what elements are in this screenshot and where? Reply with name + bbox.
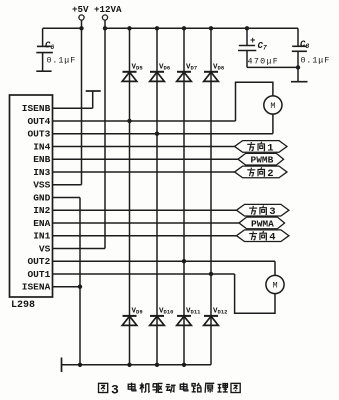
wire pin OUT3	[53, 133, 273, 135]
wire pin GND	[53, 196, 81, 198]
ground rail bottom	[62, 364, 212, 366]
svg-text:VSS: VSS	[33, 180, 50, 191]
svg-text:ENB: ENB	[33, 154, 50, 165]
svg-text:1: 1	[267, 142, 273, 154]
junction rail VD7	[182, 26, 186, 30]
junction rail C7	[245, 26, 249, 30]
svg-text:OUT1: OUT1	[27, 269, 50, 280]
wire pin OUT2	[53, 260, 276, 262]
wire pin ENB to flag	[53, 158, 239, 160]
junction rail VD5	[127, 26, 131, 30]
capacitor C8	[292, 28, 307, 81]
wire pin ISENA	[53, 286, 81, 288]
svg-text:VD8: VD8	[213, 64, 225, 72]
junction OUT4 / VD5	[127, 119, 131, 123]
net flag 方向2	[235, 166, 287, 178]
wire motor A top stub	[274, 261, 276, 275]
wire C7 to C8 bottom link	[247, 66, 298, 68]
wire pin VSS	[53, 184, 82, 186]
svg-text:3: 3	[111, 383, 119, 398]
svg-text:VD11: VD11	[186, 308, 201, 316]
junction ISENA / GND column	[78, 285, 82, 289]
svg-text:C6: C6	[45, 41, 54, 52]
svg-text:VD7: VD7	[186, 64, 197, 72]
wire ISENB riser to tap	[92, 91, 94, 108]
wire GND column down to bottom rail	[79, 197, 81, 364]
net flag 方向3	[237, 204, 289, 216]
wire motor A bottom link	[235, 274, 275, 313]
svg-text:IN3: IN3	[33, 167, 50, 178]
diode VD9	[122, 316, 137, 326]
junction OUT3 / VD6	[155, 132, 159, 136]
svg-text:+: +	[250, 36, 255, 46]
diode VD5	[122, 72, 137, 82]
wire diode column VD5/VD9	[129, 28, 131, 365]
svg-text:OUT2: OUT2	[27, 256, 50, 267]
net flag PWMB	[238, 153, 284, 165]
junction C8 bottom	[296, 65, 300, 69]
svg-text:VD12: VD12	[213, 308, 227, 316]
wire pin OUT1	[53, 273, 235, 275]
svg-text:OUT4: OUT4	[27, 116, 50, 127]
svg-text:ENA: ENA	[33, 218, 50, 229]
junction OUT2 / VD7	[182, 259, 186, 263]
wire motor B top link	[236, 82, 273, 121]
svg-text:VD5: VD5	[132, 64, 144, 72]
power terminal +5V	[79, 15, 84, 20]
junction ground rail VD9	[127, 363, 131, 367]
junction ground rail VD11	[182, 363, 186, 367]
wire +12VA top rail	[105, 27, 298, 29]
wire diode column VD7/VD11	[183, 28, 185, 365]
net flag 方向1	[235, 141, 287, 153]
svg-text:4: 4	[269, 232, 275, 244]
flag text 方向2	[247, 167, 273, 180]
junction +5V rail	[79, 26, 83, 30]
diode VD10	[150, 316, 165, 326]
junction rail VD8	[209, 26, 213, 30]
diode VD12	[204, 316, 219, 326]
svg-text:+12VA: +12VA	[94, 4, 122, 15]
svg-text:L298: L298	[11, 300, 35, 311]
svg-text:IN2: IN2	[33, 205, 50, 216]
svg-text:0.1μF: 0.1μF	[301, 56, 331, 66]
wire pin VS	[53, 247, 106, 249]
wire pin IN4 to flag	[53, 145, 235, 147]
svg-text:470μF: 470μF	[248, 57, 280, 67]
junction ground rail GND column	[78, 363, 82, 367]
power terminal +12VA	[102, 15, 107, 20]
wire pin IN1 to flag	[53, 235, 237, 237]
svg-text:PWMA: PWMA	[251, 218, 274, 229]
wire diode column VD6/VD10	[156, 28, 158, 365]
IC U1 L298 body	[10, 95, 53, 297]
svg-text:C7: C7	[258, 41, 267, 52]
wire +12VA column down to VS	[104, 20, 106, 248]
tap bar above ISENB	[86, 90, 101, 92]
diode VD8	[204, 72, 219, 82]
wire motor B bottom stub	[272, 114, 274, 134]
svg-text:VS: VS	[39, 243, 51, 254]
flag text 方向4	[249, 231, 275, 244]
junction ground rail VD10	[155, 363, 159, 367]
svg-text:PWMB: PWMB	[251, 155, 274, 166]
wire +5V rail left to C6	[43, 27, 82, 29]
flag text 方向3	[249, 206, 275, 219]
diode VD7	[177, 72, 192, 82]
capacitor C6	[36, 28, 53, 71]
junction OUT1 / VD8	[209, 272, 213, 276]
ground bar below C8	[291, 81, 308, 83]
motor M (A)	[266, 275, 284, 293]
svg-text:M: M	[273, 281, 278, 291]
junction +12VA rail	[103, 26, 107, 30]
svg-text:IN1: IN1	[33, 231, 50, 242]
ground terminal bar left	[61, 358, 63, 373]
svg-text:VD10: VD10	[159, 308, 173, 316]
svg-text:ISENB: ISENB	[22, 103, 51, 114]
svg-text:0.1μF: 0.1μF	[47, 56, 77, 66]
junction rail VD6	[155, 26, 159, 30]
wire pin OUT4	[53, 120, 236, 122]
svg-text:IN4: IN4	[33, 141, 50, 152]
svg-text:3: 3	[269, 206, 275, 218]
wire +5V column down to VSS	[81, 20, 83, 185]
svg-text:2: 2	[267, 168, 273, 180]
svg-text:VD9: VD9	[132, 308, 143, 316]
svg-text:ISENA: ISENA	[22, 282, 51, 293]
diode VD11	[177, 316, 192, 326]
diode VD6	[150, 72, 165, 82]
wire pin ISENB	[53, 107, 93, 109]
net flag 方向4	[237, 230, 289, 242]
wire pin IN2 to flag	[53, 209, 237, 211]
caption 图3 电机驱动电路原理图	[99, 383, 241, 398]
wire diode column VD8/VD12	[210, 28, 212, 365]
capacitor C7	[238, 28, 256, 67]
svg-text:M: M	[270, 101, 275, 111]
wire pin IN3 to flag	[53, 171, 235, 173]
svg-text:+5V: +5V	[72, 4, 89, 15]
flag text 方向1	[247, 142, 273, 155]
wire pin ENA to flag	[53, 222, 240, 224]
svg-text:C8: C8	[300, 40, 309, 51]
svg-text:OUT3: OUT3	[27, 129, 50, 140]
svg-text:GND: GND	[33, 192, 50, 203]
net flag PWMA	[239, 217, 285, 229]
svg-text:VD6: VD6	[159, 64, 170, 72]
motor M (B)	[264, 96, 282, 114]
